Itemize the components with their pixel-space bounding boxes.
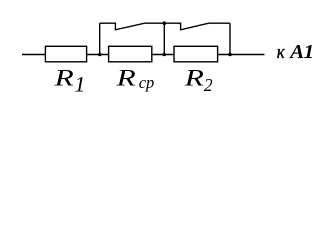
junction dot C: [228, 53, 232, 57]
svg-text:ср: ср: [139, 73, 155, 92]
svg-text:2: 2: [204, 75, 213, 95]
switch S1: [100, 23, 165, 30]
svg-text:к: к: [277, 41, 286, 62]
wire riser A: [99, 23, 101, 54]
svg-text:R: R: [115, 64, 135, 90]
resistor R2: [174, 46, 218, 62]
wire riser C: [229, 23, 231, 54]
svg-text:1: 1: [74, 72, 85, 97]
resistor Rcp: [109, 46, 152, 62]
junction dot B top: [163, 21, 167, 25]
resistor R1: [45, 46, 86, 62]
wire main horizontal: [22, 54, 265, 56]
junction dot A: [98, 53, 102, 57]
svg-text:А: А: [288, 41, 304, 63]
wire riser B: [163, 23, 165, 54]
junction dot B bottom: [163, 53, 167, 57]
svg-text:R: R: [184, 64, 204, 90]
svg-text:R: R: [53, 64, 73, 90]
svg-text:1: 1: [304, 41, 314, 63]
switch S2: [164, 23, 230, 30]
